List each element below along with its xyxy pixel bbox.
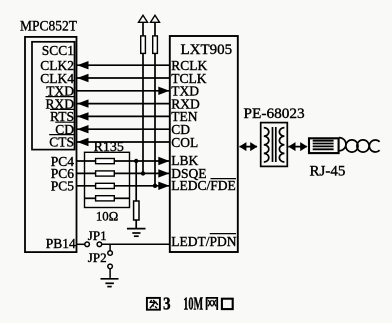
svg-text:10M: 10M: [183, 293, 203, 313]
svg-text:PC5: PC5: [51, 179, 75, 194]
svg-text:R135: R135: [94, 140, 124, 155]
svg-text:3: 3: [163, 293, 171, 313]
svg-text:COL: COL: [171, 135, 198, 150]
svg-text:JP1: JP1: [88, 228, 107, 243]
svg-text:MPC852T: MPC852T: [20, 18, 77, 34]
svg-text:PE-68023: PE-68023: [244, 106, 305, 122]
svg-text:LEDC/FDE: LEDC/FDE: [171, 178, 236, 193]
svg-text:PB14: PB14: [46, 236, 76, 251]
svg-text:SCC1: SCC1: [42, 43, 74, 58]
svg-text:10Ω: 10Ω: [96, 209, 118, 223]
svg-text:CTS: CTS: [49, 134, 74, 149]
svg-text:RJ-45: RJ-45: [310, 164, 346, 180]
svg-text:LXT905: LXT905: [180, 42, 232, 58]
svg-text:LEDT/PDN: LEDT/PDN: [171, 234, 236, 249]
svg-text:JP2: JP2: [88, 250, 107, 265]
